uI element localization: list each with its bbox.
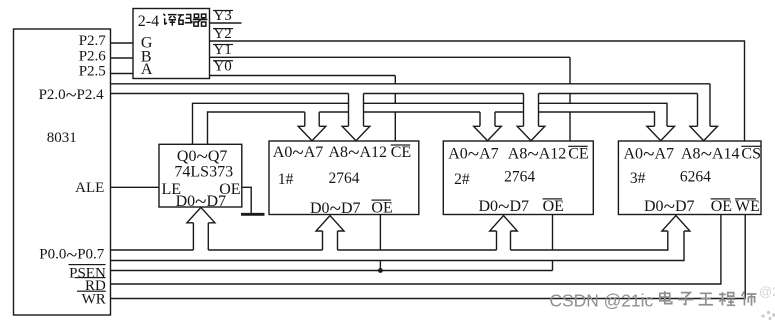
svg-text:CSDN @21ic: CSDN @21ic [550, 290, 654, 310]
bus P0.0-P0.7 bottom edge [111, 231, 685, 261]
svg-text:P2.6: P2.6 [79, 48, 107, 64]
svg-text:CE: CE [568, 145, 588, 162]
overbar Y1 [213, 44, 233, 45]
overbar 3# WE [735, 198, 756, 199]
svg-text:2764: 2764 [329, 170, 360, 187]
svg-text:OE: OE [543, 198, 564, 215]
overbar 1# CE [391, 144, 411, 145]
svg-text:1#: 1# [278, 171, 294, 188]
wire Y1 to 2# CE [210, 57, 571, 141]
svg-text:D0~D7: D0~D7 [310, 196, 361, 220]
bus A8-A12 branch shaft into 2# [524, 94, 539, 127]
watermark CSDN @21ic [550, 290, 654, 310]
overbar Y0 [213, 60, 233, 61]
latch 74LS373 box [159, 144, 242, 207]
svg-text:A: A [141, 61, 153, 78]
overbar 2# CE [568, 146, 588, 147]
wire RD to 3# OE [111, 215, 721, 285]
wire PSEN to OE pins [111, 215, 553, 271]
wire latch OE to ground [242, 187, 251, 213]
wire Y3 stub [210, 22, 242, 24]
svg-text:P2.7: P2.7 [79, 33, 107, 49]
svg-text:A0~A7: A0~A7 [624, 141, 675, 165]
overbar WR [77, 291, 106, 292]
svg-text:2764: 2764 [504, 169, 535, 186]
arrowhead A8-A14 into 3# [690, 126, 718, 140]
arrowhead data into 1# [316, 216, 344, 232]
arrowhead A0-A7 into 3# [647, 126, 675, 140]
arrowhead A8-A12 into 1# [342, 126, 370, 140]
watermark CJK 电子王程师 [660, 291, 757, 306]
svg-text:P2.5: P2.5 [79, 64, 106, 80]
wire P2.7 to G [111, 42, 134, 44]
overbar 3# CS [741, 146, 761, 147]
wire Y2 to 3# CS [210, 41, 745, 141]
svg-text:D0~D7: D0~D7 [176, 189, 227, 213]
wire Y0 to 1# CE [210, 76, 396, 142]
EPROM 1# 2764 box [269, 141, 419, 215]
data shaft into 2# D0-D7 [497, 231, 511, 250]
arrowhead data into latch [187, 207, 215, 222]
svg-text:6264: 6264 [680, 169, 711, 186]
svg-text:3#: 3# [630, 170, 646, 187]
svg-text:WR: WR [82, 291, 106, 307]
bus P2.0-P2.4 bottom edge [111, 93, 698, 95]
data shaft into 1# D0-D7 [323, 231, 338, 250]
svg-text:A8~A14: A8~A14 [681, 141, 740, 165]
wire 1# OE drop [379, 215, 381, 271]
arrowhead data into 2# [490, 216, 518, 232]
svg-text:OE: OE [711, 198, 732, 215]
svg-text:74LS373: 74LS373 [174, 163, 233, 180]
wire WR to 3# WE [111, 215, 746, 299]
overbar 3# OE [711, 198, 731, 199]
svg-text:@2: @2 [759, 284, 775, 299]
ground [241, 213, 265, 216]
svg-text:CE: CE [391, 144, 411, 161]
EPROM 2# 2764 box [443, 141, 593, 215]
overbar PSEN [69, 264, 106, 265]
arrowhead A0-A7 into 1# [298, 126, 326, 140]
svg-text:CS: CS [741, 145, 761, 162]
arrowhead A0-A7 into 2# [474, 126, 502, 140]
IC 8031 MCU box [14, 29, 111, 315]
svg-text:2#: 2# [454, 171, 470, 188]
overbar 2# OE [543, 198, 563, 199]
svg-text:ALE: ALE [75, 180, 104, 196]
bus Q0-Q7 latch riser and top edge [193, 103, 668, 144]
svg-text:8031: 8031 [47, 130, 77, 146]
bus A0-A7 branch shaft into 1# [305, 112, 319, 126]
svg-text:A8~A12: A8~A12 [329, 140, 388, 164]
svg-text:OE: OE [371, 199, 392, 216]
wire P2.5 to A [111, 73, 134, 75]
svg-text:WE: WE [735, 198, 760, 215]
svg-text:D0~D7: D0~D7 [644, 194, 695, 218]
svg-text:A0~A7: A0~A7 [273, 140, 324, 164]
bus A8-A14 end shaft into 3# [698, 84, 711, 127]
bus P0.0-P0.7 top edge [111, 231, 668, 250]
bus A8-A12 branch shaft into 1# [349, 94, 364, 127]
decoder title CJK 译码器 [163, 14, 207, 26]
svg-text:2-4: 2-4 [138, 13, 159, 30]
junction dot PSEN/1#OE [378, 268, 383, 273]
arrowhead data into 3# [662, 216, 690, 232]
overbar Y3 [213, 10, 233, 11]
wire P2.6 to B [111, 57, 134, 59]
watermark faint corner marks [759, 284, 775, 320]
data shaft into latch D0-D7 [193, 223, 208, 250]
svg-text:D0~D7: D0~D7 [479, 194, 530, 218]
overbar 1# OE [371, 200, 391, 201]
wire ALE to LE [111, 186, 160, 188]
svg-text:A0~A7: A0~A7 [448, 141, 499, 165]
SRAM 3# 6264 box [618, 141, 761, 215]
bus P2.0-P2.4 top edge [111, 83, 711, 85]
bus A0-A7 branch shaft into 2# [480, 112, 495, 126]
arrowhead A8-A12 into 2# [517, 126, 545, 140]
overbar RD [75, 277, 106, 278]
decoder 2-4 box [133, 9, 210, 79]
bus Q0-Q7 bottom edge [208, 112, 655, 144]
svg-text:A8~A12: A8~A12 [508, 141, 567, 165]
overbar Y2 [213, 28, 233, 29]
